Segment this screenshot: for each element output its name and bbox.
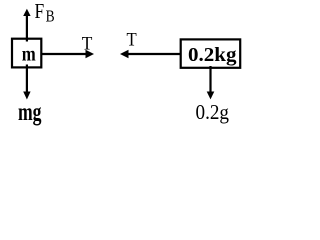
svg-text:T: T xyxy=(127,30,138,51)
weight arrow 0.2g (downward from 0.2kg block) xyxy=(207,66,215,99)
svg-text:m: m xyxy=(22,44,36,66)
block 0.2kg xyxy=(181,39,241,67)
svg-text:F: F xyxy=(35,0,45,23)
tension arrow T (leftward from 0.2kg block) xyxy=(120,50,181,58)
svg-text:0.2g: 0.2g xyxy=(196,100,230,124)
label F_B xyxy=(35,0,55,26)
tension arrow T (rightward from block m) xyxy=(42,50,94,58)
svg-text:mg: mg xyxy=(18,99,42,126)
svg-text:0.2kg: 0.2kg xyxy=(188,44,237,66)
svg-text:T: T xyxy=(82,33,93,54)
force arrow F_B (buoyancy, upward from block m) xyxy=(23,9,30,42)
block m xyxy=(12,39,41,68)
weight arrow mg (downward from block m) xyxy=(23,65,30,100)
svg-text:B: B xyxy=(46,7,55,26)
